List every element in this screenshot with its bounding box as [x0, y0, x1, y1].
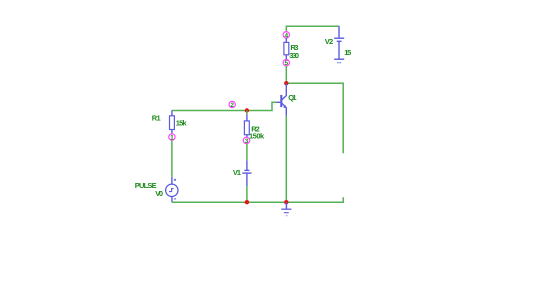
svg-text:V1: V1: [233, 168, 241, 177]
voltage source V1: [242, 160, 251, 186]
value 15 (V2): [344, 48, 351, 57]
resistor R3: [284, 38, 289, 59]
svg-text:2: 2: [230, 102, 234, 109]
resistor R2: [244, 111, 249, 138]
label PULSE: [135, 181, 157, 190]
junction dot V1 bottom: [245, 200, 249, 204]
label V0: [155, 189, 163, 198]
wire emitter down to bottom rail: [285, 116, 287, 202]
wire node1 down to V0: [171, 140, 173, 177]
node 2: [229, 101, 235, 109]
voltage source V0 (PULSE): [166, 177, 178, 202]
label V1: [233, 168, 241, 177]
node 4: [283, 32, 289, 40]
svg-text:15: 15: [344, 48, 351, 57]
wire main horizontal rail to base: [172, 102, 277, 110]
junction dot at collector: [284, 81, 288, 85]
transistor Q1: [277, 83, 287, 116]
junction dot at node 2 rail / R2: [245, 108, 249, 112]
wire V1 down to bottom rail: [246, 186, 248, 202]
svg-text:V2: V2: [325, 37, 333, 46]
svg-text:R1: R1: [152, 114, 161, 123]
svg-text:V0: V0: [155, 189, 163, 198]
label R2: [251, 125, 260, 134]
svg-text:150k: 150k: [249, 131, 265, 140]
label R3: [290, 43, 298, 52]
svg-text:15k: 15k: [176, 119, 188, 128]
node 1: [169, 134, 175, 142]
resistor R1: [170, 111, 175, 134]
ground: [281, 202, 291, 216]
label Q1: [288, 93, 296, 102]
value 15k (R1): [176, 119, 188, 128]
voltage source V2: [334, 26, 344, 63]
wire top rail from R3 top to V2 plus: [286, 26, 339, 31]
svg-text:PULSE: PULSE: [135, 181, 157, 190]
label R1: [152, 114, 161, 123]
junction dot at ground: [284, 200, 288, 204]
label V2: [325, 37, 333, 46]
node 3: [243, 137, 249, 145]
value 150k (R2): [249, 131, 265, 140]
wire bottom rail: [172, 197, 343, 202]
svg-text:Q1: Q1: [288, 93, 296, 102]
wire node5 to collector junction: [285, 66, 287, 83]
wire node3 down to V1: [246, 144, 248, 161]
node 5: [283, 60, 289, 68]
wire collector junction right then down (open end): [286, 83, 343, 153]
value 330 (R3): [289, 51, 299, 60]
svg-text:330: 330: [289, 51, 299, 60]
